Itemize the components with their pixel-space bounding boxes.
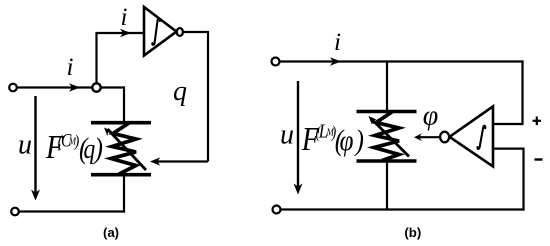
svg-text:F ( L M: F ( L M ) ( φ ) <box>301 120 364 158</box>
svg-text:i: i <box>67 54 74 81</box>
svg-text:u: u <box>280 120 294 151</box>
svg-text:q: q <box>173 76 187 107</box>
svg-text:φ: φ <box>423 101 439 132</box>
svg-text:F ( C M: F ( C M ) ( q ) <box>45 128 103 166</box>
svg-text:i: i <box>334 29 341 56</box>
svg-text:(a): (a) <box>103 225 119 240</box>
svg-text:i: i <box>121 4 128 31</box>
svg-text:u: u <box>18 130 32 161</box>
svg-text:(b): (b) <box>404 225 421 240</box>
